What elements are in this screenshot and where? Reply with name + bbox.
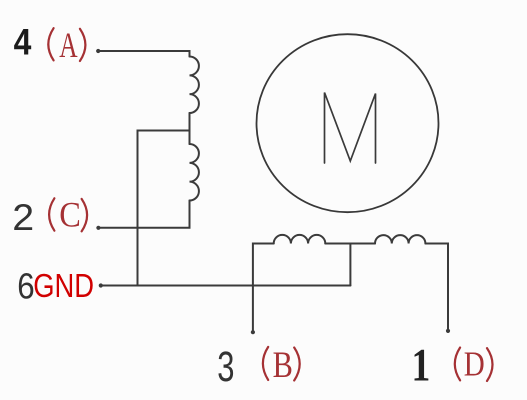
coil L3 (phase B winding) — [274, 235, 326, 244]
wire pin4 to coil L1 — [97, 51, 189, 57]
svg-text:3: 3 — [217, 342, 234, 390]
wire L3 to L4 — [325, 243, 375, 245]
pin label (B) close paren — [294, 348, 300, 381]
wire GND bus — [100, 285, 350, 287]
node GND wire end dot — [99, 283, 103, 287]
svg-text:6: 6 — [17, 266, 34, 307]
svg-text:A: A — [59, 25, 78, 66]
pin label (D) open paren — [455, 348, 460, 381]
svg-text:D: D — [464, 344, 485, 383]
node pin1 lead end dot — [446, 329, 450, 333]
motor M1 body circle — [257, 34, 439, 212]
coil L2 (phase C winding) — [190, 144, 199, 201]
wire pin3 lead — [253, 244, 274, 333]
coil L1 (phase A winding) — [190, 57, 199, 114]
wire L2 to pin2 — [98, 201, 190, 228]
motor M1 letter M — [325, 93, 376, 164]
wire GND riser to bottom center tap — [349, 244, 351, 286]
pin label (D) close paren — [487, 348, 493, 381]
svg-text:C: C — [59, 195, 81, 235]
pin label (B) open paren — [263, 347, 268, 380]
wire L1 to L2 center tap — [189, 113, 191, 144]
svg-text:4: 4 — [14, 21, 32, 63]
pin label (C) close paren — [82, 199, 88, 232]
coil L4 (phase D winding) — [375, 235, 425, 243]
wire L4 to pin1 lead — [425, 244, 448, 332]
svg-text:B: B — [273, 345, 293, 385]
node pin4 wire end dot — [96, 49, 100, 53]
node pin3 lead end dot — [251, 330, 255, 334]
svg-text:1: 1 — [412, 340, 431, 392]
pin label (A) open paren — [48, 28, 53, 60]
pin label (A) close paren — [80, 29, 86, 61]
node pin2 wire end dot — [96, 226, 100, 230]
wire center tap to GND bus — [138, 131, 190, 286]
svg-text:2: 2 — [12, 198, 34, 239]
svg-text:GND: GND — [33, 269, 94, 305]
pin label (C) open paren — [49, 198, 54, 230]
